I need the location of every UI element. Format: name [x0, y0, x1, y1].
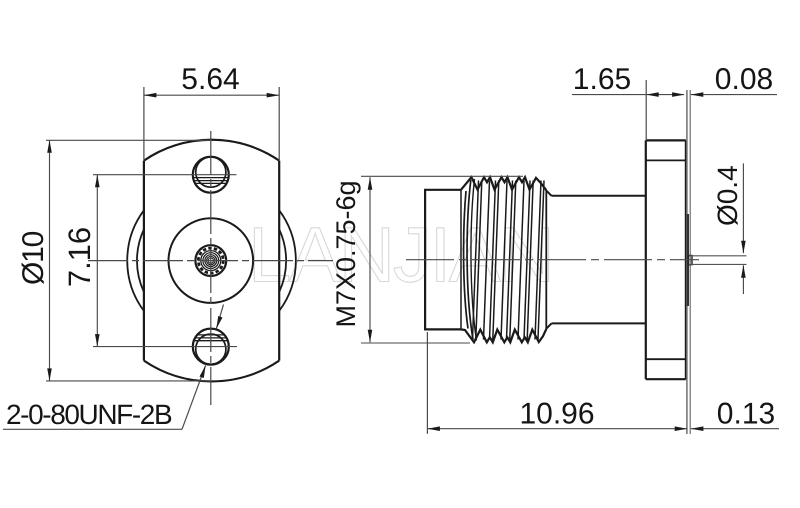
svg-text:0.08: 0.08 — [715, 63, 773, 96]
thread runout boundary lines — [461, 190, 546, 329]
top mounting screw hole — [193, 157, 229, 193]
svg-text:1.65: 1.65 — [573, 63, 631, 96]
svg-text:LANJIAN: LANJIAN — [248, 211, 553, 299]
thread callout 2-0-80UNF-2B leader — [3, 305, 224, 430]
dimension 0.08 line and arrow — [691, 92, 777, 97]
dimension 0.13 line and arrow — [691, 426, 779, 431]
svg-text:7.16: 7.16 — [62, 227, 97, 287]
dimension M7 extension lines — [361, 176, 523, 343]
front view vertical centerline — [210, 131, 212, 405]
dimension text M7X0.75-6g — [331, 180, 361, 327]
dimension 7.16 extension lines — [93, 175, 237, 347]
dimension 10.96 extension line — [426, 332, 428, 434]
dimension D10 extension lines — [46, 140, 211, 381]
front view flange outline (circle D10 with two flats) — [144, 140, 279, 382]
svg-text:2-0-80UNF-2B: 2-0-80UNF-2B — [6, 399, 172, 430]
svg-text:Ø0.4: Ø0.4 — [712, 165, 743, 226]
svg-text:Ø10: Ø10 — [17, 231, 50, 285]
front view thread major/minor circle arcs behind flats — [127, 210, 296, 311]
svg-text:5.64: 5.64 — [181, 63, 239, 96]
dimension 1.65 extension line — [645, 80, 647, 140]
dimension 1.65 line and arrows — [572, 92, 685, 97]
dimension text 1.65 — [573, 63, 631, 96]
rear insulator lines — [687, 90, 690, 434]
dimension text 10.96 — [519, 398, 594, 431]
dimension text 0.08 — [715, 63, 773, 96]
dimension D0.4 extension lines (pin edges) — [689, 256, 747, 265]
front view center boss circle — [169, 218, 254, 303]
dimension text 7.16 — [62, 227, 97, 287]
dimension 10.96 line and arrows — [427, 426, 687, 431]
center pin stub — [688, 256, 692, 265]
svg-text:10.96: 10.96 — [519, 398, 594, 431]
side view flange plate — [646, 140, 686, 379]
dimension 5.64 extension lines — [144, 87, 279, 161]
thread crest profile bottom — [461, 329, 546, 342]
dimension 7.16 line and arrows — [95, 175, 100, 347]
dimension 5.64 line and arrows — [144, 93, 279, 98]
side view barrel body — [425, 190, 461, 330]
bottom mounting screw hole — [193, 329, 229, 365]
dimension text 0.13 — [717, 398, 775, 431]
dimension text D10 — [17, 231, 50, 285]
svg-text:M7X0.75-6g: M7X0.75-6g — [331, 180, 361, 327]
neck cylinder — [546, 191, 646, 329]
watermark LANJIAN — [248, 211, 553, 299]
thread flank helix lines — [464, 179, 544, 341]
dimension D0.4 line and arrows — [741, 163, 746, 294]
thread callout text 2-0-80UNF-2B — [6, 399, 172, 430]
center contact rosette (concentric rings) — [195, 245, 226, 276]
side view horizontal centerline — [406, 259, 699, 261]
dimension text D0.4 — [712, 165, 743, 226]
thread crest profile top — [461, 177, 546, 190]
dimension M7 line and arrows — [368, 177, 373, 342]
dimension text 5.64 — [181, 63, 239, 96]
front view horizontal centerline — [88, 260, 333, 262]
dimension D10 line and arrows — [47, 140, 52, 381]
svg-text:0.13: 0.13 — [717, 398, 775, 431]
